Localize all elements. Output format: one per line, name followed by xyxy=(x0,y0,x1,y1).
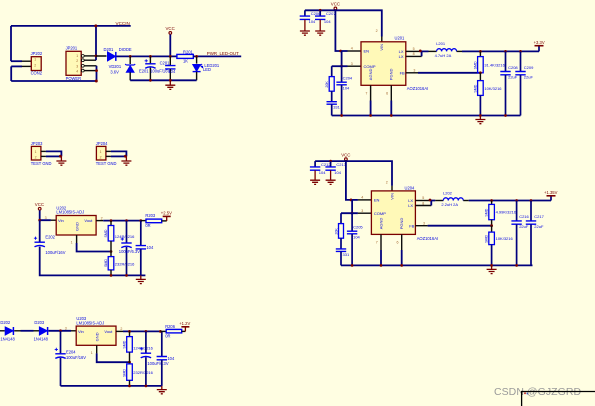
junction bottom rail xyxy=(95,80,98,83)
junction COMP buck2 xyxy=(351,212,354,215)
ground LDO1 xyxy=(140,275,142,279)
svg-text:124R/3216: 124R/3216 xyxy=(133,345,153,350)
wire EN drop to COMP xyxy=(341,51,343,66)
svg-text:Vin: Vin xyxy=(78,329,84,334)
svg-text:L202: L202 xyxy=(443,190,453,195)
svg-text:22uF: 22uF xyxy=(534,224,544,229)
svg-text:104: 104 xyxy=(353,234,360,239)
svg-text:331: 331 xyxy=(343,252,350,257)
svg-text:LX: LX xyxy=(399,54,404,59)
diode D201 xyxy=(108,52,116,61)
power +1.35V out xyxy=(550,196,552,201)
svg-text:U201: U201 xyxy=(395,36,406,41)
pin U201 VIN xyxy=(381,37,383,42)
wire LX out rail buck2 xyxy=(469,200,551,202)
wire VCC to Vin xyxy=(40,210,51,220)
svg-text:+3.3V: +3.3V xyxy=(534,40,545,45)
svg-text:EN: EN xyxy=(364,49,370,54)
wire CON2 pin2 xyxy=(11,65,22,67)
junction LX buck2 xyxy=(429,199,432,202)
junction bottom E201 xyxy=(149,79,152,82)
resistor R213 xyxy=(491,201,493,205)
wire R to out xyxy=(193,55,241,57)
svg-text:331: 331 xyxy=(333,105,340,110)
wire bottom rail buck2 xyxy=(341,264,533,266)
svg-text:C205: C205 xyxy=(353,224,363,229)
inductor L201 4.7uH xyxy=(429,50,437,52)
junction rail pgnd buck2 xyxy=(400,264,403,267)
resistor R203 0R xyxy=(146,219,162,223)
wire EN buck2 xyxy=(352,199,358,201)
wire COMP buck2 xyxy=(341,212,358,214)
junction cap C209 xyxy=(519,50,522,53)
wire ADJ to divider xyxy=(97,353,130,362)
svg-text:GND: GND xyxy=(74,222,79,231)
svg-text:232R/3216: 232R/3216 xyxy=(115,261,135,266)
ground JP204 xyxy=(125,156,127,161)
svg-text:+1.2V: +1.2V xyxy=(179,321,190,326)
wire JP204-1 xyxy=(111,151,127,156)
svg-text:LED: LED xyxy=(203,67,211,72)
capacitor C203 104 xyxy=(161,331,163,356)
svg-text:100uF/16V: 100uF/16V xyxy=(45,250,65,255)
pin U204 PGND xyxy=(401,234,403,250)
svg-text:1: 1 xyxy=(34,58,36,62)
junction cap buck2 xyxy=(329,160,332,163)
svg-text:4.7uH 2A: 4.7uH 2A xyxy=(435,53,452,58)
wire JP204-2 xyxy=(111,155,127,157)
frame corner line vertical xyxy=(521,391,523,406)
junction bottom R208 xyxy=(128,385,131,388)
svg-text:R201: R201 xyxy=(183,49,194,54)
svg-text:104: 104 xyxy=(309,19,316,24)
svg-text:DIODE: DIODE xyxy=(119,47,132,52)
svg-text:C208: C208 xyxy=(508,65,518,70)
wire LED bottom rail xyxy=(130,79,196,81)
capacitor C202 104 xyxy=(140,221,142,246)
svg-text:3: 3 xyxy=(413,68,415,72)
junction cap C217 xyxy=(530,199,533,202)
wire bottom rail buck1 xyxy=(332,115,521,117)
capacitor C201 104 xyxy=(169,56,171,65)
resistor R212 comp xyxy=(340,213,342,223)
inductor L202 2.2uH xyxy=(435,200,443,202)
svg-text:20K: 20K xyxy=(325,81,329,88)
svg-text:10K/3216: 10K/3216 xyxy=(496,236,514,241)
resistor R201 1K xyxy=(177,54,193,58)
svg-text:0R: 0R xyxy=(165,333,170,338)
svg-text:E201: E201 xyxy=(139,69,149,74)
junction bottom R205 xyxy=(110,274,113,277)
svg-text:C204: C204 xyxy=(343,75,353,80)
wire VIN top rail buck2 xyxy=(315,161,392,186)
svg-text:20K: 20K xyxy=(335,228,339,235)
pin POWER-3 xyxy=(81,64,84,67)
pin CON2-1 xyxy=(22,60,32,62)
svg-text:GND: GND xyxy=(94,332,99,341)
wire COMP xyxy=(332,65,348,67)
svg-text:C201: C201 xyxy=(160,61,171,66)
junction LED tap xyxy=(195,55,198,58)
svg-text:AGND: AGND xyxy=(368,69,373,81)
capacitor C212 104 xyxy=(314,161,316,167)
resistor R208 232R xyxy=(129,362,131,364)
tiny mark near watermark xyxy=(524,392,526,394)
junction rail comp xyxy=(340,114,343,117)
capacitor E203 100uF/6.3V xyxy=(126,221,128,243)
svg-text:SMD: SMD xyxy=(473,61,477,69)
wire main to diode xyxy=(96,55,107,57)
wire top rail VCCIN xyxy=(11,25,131,27)
plus mark polarized cap xyxy=(121,237,124,240)
svg-text:JP202: JP202 xyxy=(31,51,43,56)
svg-text:3: 3 xyxy=(65,327,67,331)
junction rail comp buck2 xyxy=(351,264,354,267)
resistor R205 232R xyxy=(110,252,112,257)
svg-text:C216: C216 xyxy=(519,214,529,219)
svg-text:1N4148: 1N4148 xyxy=(0,336,15,341)
svg-text:VIN: VIN xyxy=(379,44,384,51)
wire LX join xyxy=(420,51,428,56)
svg-text:2: 2 xyxy=(76,59,78,63)
junction Vin xyxy=(38,219,41,222)
svg-text:D201: D201 xyxy=(104,47,115,52)
regulator U202 LM1085IS-ADJ xyxy=(56,216,96,236)
pin U201 PGND xyxy=(390,85,392,100)
power +2.5V LDO1 out xyxy=(166,216,168,221)
svg-text:C217: C217 xyxy=(534,214,544,219)
svg-text:POWER: POWER xyxy=(66,76,82,81)
svg-text:4: 4 xyxy=(76,69,78,73)
plus mark polarized cap xyxy=(34,237,37,240)
svg-text:VCC: VCC xyxy=(331,2,340,7)
pin U204 LX2 xyxy=(415,205,431,207)
svg-text:124R/3216: 124R/3216 xyxy=(115,234,135,239)
junction pin4 xyxy=(95,69,98,72)
svg-text:5: 5 xyxy=(413,47,415,51)
junction rail divider xyxy=(479,114,482,117)
svg-text:3: 3 xyxy=(361,209,363,213)
svg-text:1N4148: 1N4148 xyxy=(34,336,49,341)
wire JP203-1 xyxy=(46,151,62,156)
wire left branch down xyxy=(39,220,41,242)
svg-text:4.99K/3216: 4.99K/3216 xyxy=(496,210,517,215)
svg-text:COMP: COMP xyxy=(374,211,386,216)
ground JP203 xyxy=(60,156,62,161)
capacitor C211 comp2 xyxy=(341,66,343,82)
svg-text:AOZ1016AI: AOZ1016AI xyxy=(417,236,438,241)
capacitor E201 100uF/16V xyxy=(149,56,151,63)
junction input cap tap xyxy=(59,329,62,332)
svg-text:1: 1 xyxy=(100,150,102,154)
svg-text:FB: FB xyxy=(400,70,405,75)
junction E205 top xyxy=(145,330,148,333)
svg-text:Vin: Vin xyxy=(58,218,64,223)
svg-text:JP204: JP204 xyxy=(96,141,108,146)
resistor R211 10K xyxy=(479,73,481,81)
pin CON2-2 xyxy=(22,65,32,67)
svg-text:2: 2 xyxy=(34,64,36,68)
svg-text:Vout: Vout xyxy=(84,218,93,223)
svg-text:3: 3 xyxy=(76,65,78,69)
svg-text:2: 2 xyxy=(376,29,378,33)
pin U202 Vout xyxy=(96,220,103,222)
capacitor C214 comp xyxy=(336,249,346,252)
junction E203 top xyxy=(125,219,128,222)
junction rail c216 xyxy=(515,264,518,267)
wire VCC to EN xyxy=(335,10,341,51)
wire FB xyxy=(418,72,480,74)
svg-text:C209: C209 xyxy=(524,65,534,70)
svg-text:EN: EN xyxy=(374,198,380,203)
svg-text:FB: FB xyxy=(409,223,414,228)
wire vertical VCCIN drop xyxy=(95,26,97,60)
svg-text:VCC: VCC xyxy=(341,152,350,157)
svg-text:PGND: PGND xyxy=(399,218,404,230)
connector JP202 CON2 xyxy=(31,57,41,71)
junction divider mid xyxy=(128,361,131,364)
junction cap C208 xyxy=(504,50,507,53)
plus mark polarized cap xyxy=(145,59,148,62)
pin U204 FB xyxy=(415,225,427,227)
wire left vertical upper xyxy=(10,26,12,61)
svg-text:LM1085IS-ADJ: LM1085IS-ADJ xyxy=(76,320,104,325)
capacitor C209 22uF xyxy=(520,51,522,71)
svg-text:100uF/16V: 100uF/16V xyxy=(66,355,86,360)
pin U203 GND/ADJ xyxy=(96,345,98,353)
svg-text:1: 1 xyxy=(35,150,37,154)
IC U201 AOZ1016AI xyxy=(361,42,406,86)
wire LX out rail xyxy=(462,50,539,52)
svg-text:0R: 0R xyxy=(145,223,150,228)
wire between diodes xyxy=(14,330,20,332)
svg-text:+2.5V: +2.5V xyxy=(161,210,172,215)
junction R207 top xyxy=(128,330,131,333)
svg-text:6: 6 xyxy=(386,92,388,96)
junction VCC tap xyxy=(169,55,172,58)
svg-text:SMD: SMD xyxy=(485,208,489,216)
pin JP203-2 xyxy=(41,155,46,157)
pin U201 LX2 xyxy=(406,55,422,57)
svg-text:1: 1 xyxy=(76,54,78,58)
svg-text:JP201: JP201 xyxy=(66,46,78,51)
svg-text:4: 4 xyxy=(351,47,353,51)
wire EN xyxy=(342,50,348,52)
pin U201 EN xyxy=(348,50,362,52)
svg-text:2.2uH 2A: 2.2uH 2A xyxy=(441,202,458,207)
junction rail agnd buck2 xyxy=(380,264,383,267)
ground C212 xyxy=(314,170,316,180)
svg-text:R203: R203 xyxy=(145,213,156,218)
connector JP203 TEST GND xyxy=(31,146,41,160)
pin U202 GND/ADJ xyxy=(76,235,78,243)
wire vertical gnd riser xyxy=(96,66,98,81)
junction bottom C201 xyxy=(169,79,172,82)
capacitor C208 22uF xyxy=(505,51,507,71)
svg-text:5: 5 xyxy=(422,196,424,200)
svg-text:PGND: PGND xyxy=(389,69,394,81)
LED LED201 xyxy=(196,56,198,63)
capacitor C213 104 xyxy=(330,161,332,167)
diode D203 1N4148 xyxy=(39,327,47,335)
pin U204 VIN xyxy=(391,186,393,191)
pin POWER-4 xyxy=(81,69,84,72)
frame corner line horizontal xyxy=(522,391,595,393)
svg-text:100uF/6.3V: 100uF/6.3V xyxy=(119,249,140,254)
capacitor E202 100uF/16V xyxy=(35,241,45,243)
wire VIN top rail xyxy=(305,10,382,36)
ground buck2 xyxy=(491,265,493,269)
svg-text:D203: D203 xyxy=(34,320,45,325)
svg-text:PWR_LED-OUT: PWR_LED-OUT xyxy=(207,51,239,56)
svg-text:7: 7 xyxy=(365,92,367,96)
svg-text:E202: E202 xyxy=(45,235,55,240)
plus mark polarized cap xyxy=(140,347,143,350)
svg-text:VCC: VCC xyxy=(166,26,175,31)
capacitor C216 22uF xyxy=(516,201,518,221)
ground C213 xyxy=(330,170,332,180)
svg-text:LX: LX xyxy=(408,203,413,208)
junction rail divider buck2 xyxy=(490,264,493,267)
diode D202 1N4148 xyxy=(5,327,13,335)
svg-text:SMD: SMD xyxy=(104,229,108,237)
plus mark polarized cap xyxy=(55,348,58,351)
capacitor E204 100uF/16V xyxy=(60,331,62,354)
resistor R207 124R xyxy=(129,331,131,336)
resistor R204 124R xyxy=(110,221,112,226)
svg-text:3: 3 xyxy=(45,216,47,220)
pin JP204-2 xyxy=(106,155,111,157)
ground LDO2 xyxy=(161,386,163,390)
connector JP201 POWER xyxy=(66,51,81,75)
junction zener tap xyxy=(129,55,132,58)
svg-text:AGND: AGND xyxy=(378,218,383,230)
wire bottom rail xyxy=(61,385,162,387)
svg-text:SMD: SMD xyxy=(123,340,127,348)
wire EN drop to COMP buck2 xyxy=(351,200,353,213)
wire out stub xyxy=(141,220,146,222)
wire input left edge xyxy=(0,330,5,332)
IC U204 AOZ1016AI xyxy=(371,191,415,235)
svg-text:R206: R206 xyxy=(165,324,176,329)
junction C202 top xyxy=(139,219,142,222)
capacitor C217 22uF xyxy=(530,201,532,221)
junction pin1 xyxy=(95,55,98,58)
resistor R210 31.4K xyxy=(479,51,481,56)
junction rail agnd xyxy=(369,114,372,117)
pin U201 FB xyxy=(406,72,418,74)
svg-text:AOZ1016AI: AOZ1016AI xyxy=(407,86,428,91)
junction LX xyxy=(419,50,422,53)
capacitor C206 104 xyxy=(304,10,306,16)
svg-text:SMD: SMD xyxy=(123,369,127,377)
svg-text:6: 6 xyxy=(397,241,399,245)
svg-text:31.4K/3216: 31.4K/3216 xyxy=(484,62,505,67)
junction FB divider top buck2 xyxy=(490,199,493,202)
svg-text:104: 104 xyxy=(319,170,326,175)
pin U201 AGND xyxy=(370,85,372,100)
pin JP203-1 xyxy=(41,150,46,152)
svg-text:104: 104 xyxy=(168,69,176,74)
pin U204 AGND xyxy=(380,234,382,250)
pin POWER-1 xyxy=(81,55,84,58)
svg-text:TEST GND: TEST GND xyxy=(31,161,52,166)
wire out stub xyxy=(160,330,166,332)
svg-text:104: 104 xyxy=(324,19,331,24)
svg-text:D202: D202 xyxy=(0,320,11,325)
junction FB mid xyxy=(479,71,482,74)
wire VCC to EN buck2 xyxy=(346,161,352,200)
svg-text:3.6V: 3.6V xyxy=(110,69,119,74)
connector JP204 TEST GND xyxy=(96,146,106,160)
wire bottom rail xyxy=(11,80,96,82)
capacitor C207 104 xyxy=(319,10,321,16)
svg-text:104: 104 xyxy=(334,170,341,175)
wire Vout rail xyxy=(103,220,141,222)
pin POWER-2 xyxy=(81,59,84,62)
junction divider mid xyxy=(110,250,113,253)
svg-text:2: 2 xyxy=(100,156,102,160)
pin U202 Vin xyxy=(51,219,56,221)
pin U204 EN xyxy=(358,199,372,201)
wire diode to Vin xyxy=(48,330,71,332)
junction EN buck2 xyxy=(350,199,353,202)
svg-text:2: 2 xyxy=(35,156,37,160)
regulator U203 LM1085IS-ADJ xyxy=(76,326,116,345)
svg-text:104: 104 xyxy=(343,85,350,90)
svg-text:8: 8 xyxy=(422,201,424,205)
junction out tap xyxy=(159,330,162,333)
junction COMP xyxy=(340,65,343,68)
junction JP204 xyxy=(124,155,127,158)
pin U204 COMP xyxy=(358,212,372,214)
junction top rail xyxy=(94,24,97,27)
zener VD201 3.6V xyxy=(129,56,131,64)
pin U203 Vin xyxy=(71,330,76,332)
junction FB divider top xyxy=(479,50,482,53)
svg-text:SMD: SMD xyxy=(104,259,108,267)
svg-text:TEST GND: TEST GND xyxy=(96,161,117,166)
junction R204 top xyxy=(110,219,113,222)
svg-text:2: 2 xyxy=(386,180,388,184)
svg-text:1K: 1K xyxy=(183,59,188,64)
svg-text:1: 1 xyxy=(91,351,93,355)
junction FB mid buck2 xyxy=(490,224,493,227)
wire CON2 pin1 xyxy=(11,60,22,62)
resistor R206 0R xyxy=(166,329,182,333)
svg-text:7: 7 xyxy=(376,241,378,245)
svg-text:104: 104 xyxy=(167,356,175,361)
pin U201 LX1 xyxy=(406,50,421,52)
svg-text:2: 2 xyxy=(120,327,122,331)
pin U204 LX1 xyxy=(415,200,430,202)
ground C206 xyxy=(304,20,306,31)
junction rail c208 xyxy=(504,114,507,117)
svg-text:VCC: VCC xyxy=(35,202,44,207)
svg-text:104: 104 xyxy=(146,245,154,250)
wire Vout rail xyxy=(123,330,160,332)
junction cap C216 xyxy=(515,199,518,202)
svg-text:3: 3 xyxy=(351,62,353,66)
svg-text:LM1085IS-ADJ: LM1085IS-ADJ xyxy=(56,210,84,215)
svg-text:100uF/6.3V: 100uF/6.3V xyxy=(147,361,168,366)
svg-text:L201: L201 xyxy=(436,41,446,46)
pin U201 COMP xyxy=(348,65,362,67)
svg-text:8: 8 xyxy=(413,52,415,56)
svg-text:1: 1 xyxy=(71,241,73,245)
junction E201 tap xyxy=(149,55,152,58)
svg-text:22uF: 22uF xyxy=(524,74,534,79)
